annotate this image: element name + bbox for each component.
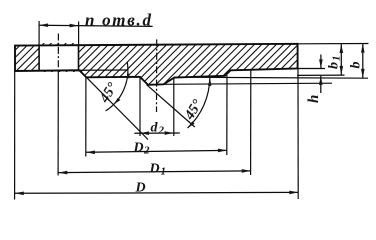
dimension line h upper stub [320,55,322,69]
label: D2 [133,141,151,157]
label: 45 deg left [96,80,121,107]
flange axis centerline (dash-dot) [156,39,158,112]
label: b1 [327,56,343,70]
rim bottom reference stub for left angle [79,69,128,71]
dimension line D2 [86,150,227,152]
extension line D2 right [226,75,228,155]
bolt hole (section void) left edge [38,46,40,71]
dimension line D [15,191,299,194]
arrowheads: D1 [58,169,250,174]
dimension line n otv.d with text underline [39,25,153,26]
extension line bolt-hole left (above) [38,21,40,46]
label: d2 [151,121,165,137]
dimension line b1 [340,44,342,75]
extension line: b1 bottom reference [297,74,345,76]
extension line d2 left [139,77,141,136]
arrowheads: left 45 arc [114,70,131,104]
arrowheads: b1 [340,44,344,75]
svg-text:d: d [151,121,159,136]
svg-text:D: D [133,141,144,156]
extension line d2 right [173,78,175,136]
label: h [306,95,322,103]
extension line: rim bottom carried right (h reference) [298,68,325,70]
label: b [349,62,364,69]
arrowheads: d2 [140,131,174,135]
dimension line h lower stub [320,76,322,93]
bolt hole centerline (dash-dot) [57,34,59,71]
chamfer 45-deg construction line (left) [86,77,148,139]
angular dimension arc (left 45) [106,62,128,111]
label: 45 deg right [181,97,206,124]
extension line: top face carried right [298,43,369,45]
label: D1 [149,161,167,177]
extension line D left [14,71,16,199]
dimension line D1 [58,171,250,173]
svg-text:b: b [327,62,342,69]
dimension line d2 [134,132,180,134]
extension line bolt-hole right (above) [78,22,80,46]
svg-text:n отв.d: n отв.d [85,11,153,30]
svg-text:h: h [306,95,322,103]
arrowheads: b [361,44,365,78]
extension line: raised-face bottom carried right (b reference) [175,77,369,78]
svg-text:D: D [149,161,160,176]
bolt hole right edge [78,45,80,70]
svg-text:1: 1 [331,56,343,62]
arrowheads: D2 [86,149,227,155]
extension line: groove bottom carried right [164,83,333,84]
extension line D1 right [250,70,252,175]
angular dimension arc (right 45) [188,78,210,128]
bolt hole centerline extension to D1 [57,71,59,176]
arrowheads: h [319,59,323,85]
section hatching of flange body [0,42,337,87]
arrowheads: n otv.d [39,23,79,27]
svg-text:1: 1 [161,165,167,177]
svg-text:b: b [349,62,364,69]
arrowheads: D [15,191,299,196]
svg-text:2: 2 [143,145,150,157]
svg-text:D: D [135,181,146,196]
extension line D right [297,69,299,200]
arrowheads: right 45 arc [188,78,212,128]
dimension line b [362,44,364,78]
flange section outline (top face, rim, raised face, central groove) [15,44,298,85]
svg-text:2: 2 [158,125,165,137]
groove-wall 45-deg construction line (right) [147,85,195,127]
extension line D2 left [85,77,87,156]
